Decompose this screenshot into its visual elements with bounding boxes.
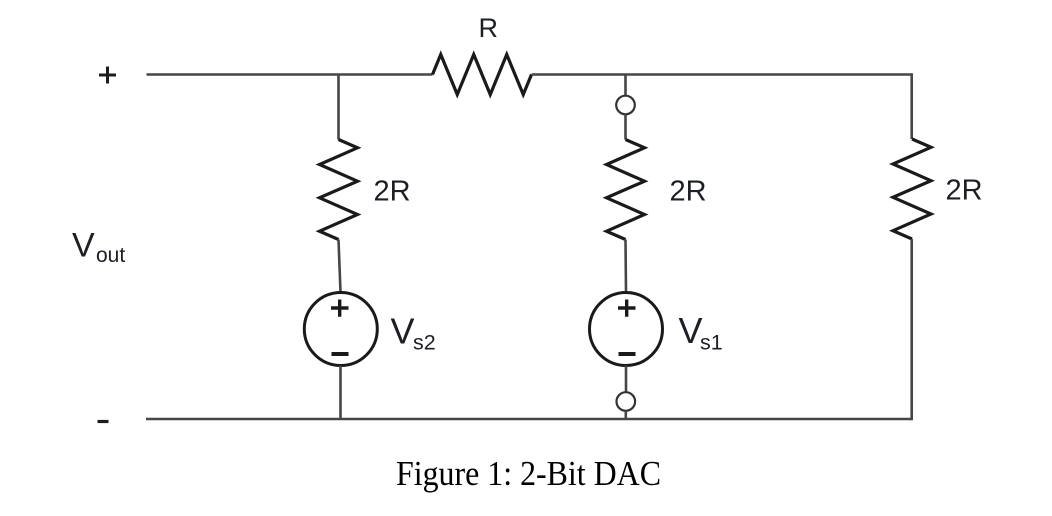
svg-text:2R: 2R [946, 175, 983, 207]
wire node stub to bottom rail [624, 411, 627, 419]
Vs2 plus mark [331, 300, 349, 317]
svg-text:V: V [679, 310, 703, 351]
wire right branch upper [910, 73, 913, 139]
svg-text:Figure 1: 2-Bit DAC: Figure 1: 2-Bit DAC [396, 454, 661, 493]
wire top left segment [147, 73, 433, 76]
svg-text:V: V [391, 311, 415, 352]
wire right branch lower [910, 239, 913, 420]
wire middle branch middle [624, 240, 627, 293]
node - (bottom terminal label) [98, 420, 109, 423]
node terminal circle (top) [616, 96, 635, 115]
voltage source Vs1 [590, 293, 663, 366]
resistor 2R (right) [893, 139, 931, 239]
svg-text:V: V [72, 227, 95, 265]
wire left branch middle [339, 240, 341, 293]
Vs1 minus mark [619, 352, 636, 356]
Vs2 minus mark [332, 352, 349, 356]
wire top right segment [532, 73, 912, 76]
wire bottom rail [146, 418, 912, 421]
wire left branch upper [337, 74, 340, 140]
wire left branch lower [339, 366, 342, 420]
wire middle branch stub [624, 74, 627, 96]
node terminal circle (bottom) [617, 392, 636, 411]
wire middle branch upper [624, 115, 627, 140]
svg-text:s2: s2 [413, 331, 436, 355]
resistor 2R (left) [320, 140, 358, 240]
voltage source Vs2 [304, 293, 377, 366]
resistor 2R (middle) [607, 140, 645, 240]
wire middle branch lower [625, 366, 628, 393]
Vs1 plus mark [618, 300, 636, 317]
svg-text:s1: s1 [700, 331, 723, 355]
svg-text:out: out [96, 244, 125, 267]
svg-text:2R: 2R [670, 176, 707, 208]
node + (top terminal label) [99, 67, 116, 84]
svg-text:R: R [479, 13, 499, 43]
svg-text:2R: 2R [374, 176, 411, 208]
resistor R [433, 55, 532, 95]
